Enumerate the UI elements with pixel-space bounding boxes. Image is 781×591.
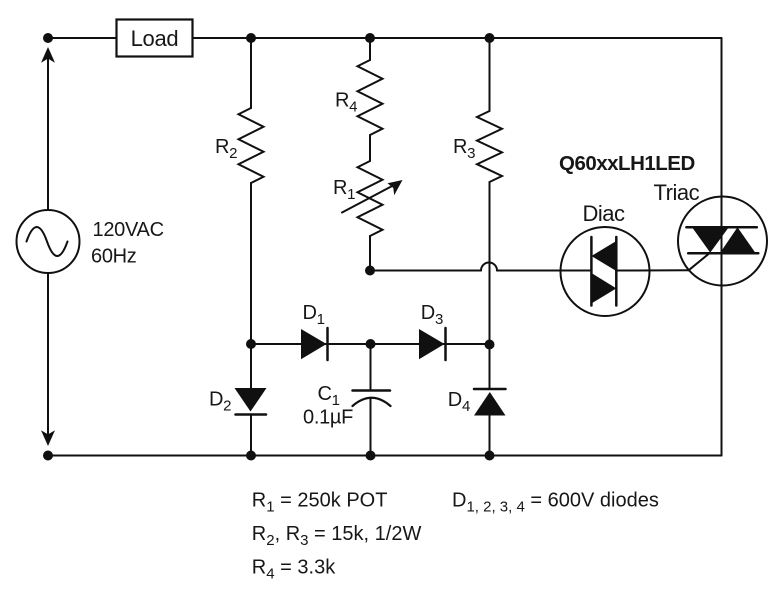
wire top rail left — [48, 37, 116, 39]
node middle center — [366, 339, 376, 349]
AC source V1 sine wave — [27, 227, 68, 256]
load box LOAD — [117, 20, 193, 57]
node bottom D2 — [246, 451, 256, 461]
svg-text:120VAC: 120VAC — [93, 219, 164, 241]
diac lower triangle — [591, 273, 616, 304]
AC source V1 circle — [17, 210, 80, 273]
diode D2 — [235, 388, 267, 415]
wire hop over R3 line — [481, 263, 497, 271]
wire R4 to R1 — [369, 135, 371, 161]
node top-left — [43, 33, 53, 43]
svg-text:Load: Load — [131, 26, 179, 51]
node top R3 — [485, 33, 495, 43]
resistor R3 — [477, 111, 502, 182]
triac left triangle — [693, 228, 729, 253]
wire R3 to D3 node — [489, 182, 491, 345]
diode D4 — [474, 389, 506, 416]
svg-text:Diac: Diac — [583, 201, 626, 226]
triac bottom bar — [688, 252, 758, 255]
wire right rail — [721, 38, 723, 456]
wire hop to diac — [497, 270, 591, 272]
node bottom C1 — [366, 451, 376, 461]
node top R4 — [365, 33, 375, 43]
wire R2 top lead — [250, 38, 252, 108]
potentiometer R1 — [342, 161, 403, 236]
source V1 arrow down — [41, 273, 55, 446]
resistor R2 — [239, 108, 264, 183]
diac right electrode bar — [615, 237, 618, 306]
wire D2 top lead — [250, 344, 252, 388]
wire D2 bottom lead — [250, 415, 252, 456]
node bottom D4 — [485, 451, 495, 461]
svg-text:60Hz: 60Hz — [91, 246, 137, 268]
triac right triangle — [720, 227, 756, 253]
node bottom-left — [43, 451, 53, 461]
svg-text:0.1µF: 0.1µF — [303, 407, 353, 429]
wire R1 bottom lead — [369, 236, 371, 271]
wire bottom rail — [48, 455, 722, 457]
diac circle — [561, 227, 650, 316]
node middle right — [485, 340, 495, 350]
capacitor C1 — [353, 391, 391, 407]
wire top rail right of load — [193, 37, 722, 39]
wire D4 bottom lead — [489, 416, 491, 456]
diode D3 — [419, 328, 446, 360]
wire middle diode rail — [251, 343, 490, 345]
wire gate net to diac — [370, 270, 481, 272]
diac left electrode bar — [590, 237, 593, 306]
wire C1 top lead — [370, 344, 372, 390]
triac top bar — [686, 226, 756, 229]
resistor R4 — [358, 60, 383, 135]
svg-text:Q60xxLH1LED: Q60xxLH1LED — [559, 152, 695, 175]
node top R2 — [246, 33, 256, 43]
wire diac to triac — [616, 269, 688, 271]
wire R4 top lead — [369, 38, 371, 60]
node gate net — [365, 266, 375, 276]
wire D4 top lead — [489, 345, 491, 390]
wire C1 bottom lead — [370, 399, 372, 456]
node middle left — [246, 339, 256, 349]
triac gate lead — [689, 253, 711, 271]
diode D1 — [301, 328, 328, 360]
wire R2 bottom lead — [250, 183, 252, 344]
svg-text:Triac: Triac — [654, 180, 700, 205]
source V1 arrow up — [41, 47, 55, 210]
triac circle — [678, 197, 767, 286]
wire R3 top lead — [489, 38, 491, 111]
diac upper triangle — [591, 241, 616, 271]
